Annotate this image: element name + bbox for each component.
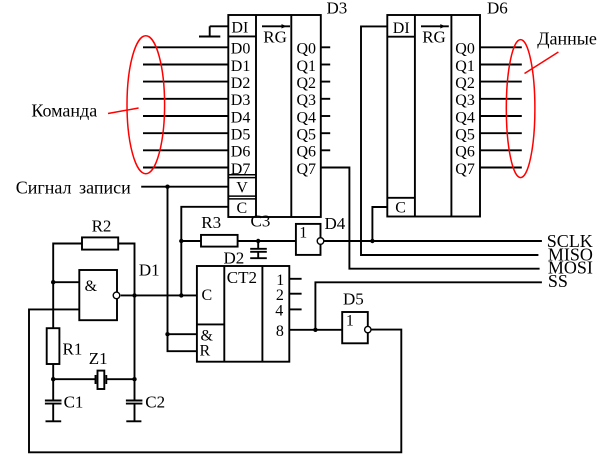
svg-text:Q5: Q5 — [455, 127, 475, 144]
svg-text:D7: D7 — [231, 161, 251, 178]
red ellipse data bus — [506, 40, 535, 178]
inverter D5 — [342, 312, 368, 343]
svg-text:D3: D3 — [231, 92, 251, 109]
wire D6 output Q7 — [480, 167, 522, 169]
wire D6 output Q3 — [480, 98, 522, 100]
wire D3 output Q3 stub — [321, 98, 330, 100]
svg-text:Сигнал записи: Сигнал записи — [16, 177, 131, 197]
svg-text:D3: D3 — [327, 0, 348, 18]
wire D6 output Q1 — [480, 64, 522, 66]
svg-text:D5: D5 — [231, 127, 251, 144]
svg-text:SS: SS — [548, 271, 568, 291]
red pointer line Данные — [525, 52, 559, 74]
wire D1 upper input — [53, 281, 79, 283]
svg-text:C: C — [202, 287, 213, 304]
svg-text:RG: RG — [263, 27, 287, 46]
svg-text:Q0: Q0 — [455, 41, 475, 58]
resistor R3 — [201, 235, 238, 247]
wire D3 input D1 — [143, 64, 228, 66]
wire D6 DI from MISO — [361, 26, 538, 255]
svg-text:Q3: Q3 — [455, 92, 475, 109]
wire SCLK rail from D4 — [324, 240, 542, 242]
resistor R1 — [47, 328, 60, 364]
svg-text:C2: C2 — [145, 393, 165, 412]
svg-text:V: V — [236, 179, 248, 196]
capacitor C3 to ground — [250, 241, 267, 258]
wire D3 output Q6 stub — [321, 149, 330, 151]
svg-text:D2: D2 — [224, 248, 245, 267]
svg-text:Команда: Команда — [31, 100, 97, 120]
junction D3 C / R3 rail — [179, 239, 183, 243]
wire D3 input D6 — [143, 149, 228, 151]
svg-text:D6: D6 — [231, 144, 251, 161]
svg-text:&: & — [85, 278, 98, 295]
wire D6 output Q4 — [480, 115, 522, 117]
D5 output bubble — [365, 326, 371, 332]
D1 output bubble — [113, 292, 120, 299]
svg-text:Q5: Q5 — [297, 127, 317, 144]
junction D3 C / CT2 C wire — [179, 293, 183, 297]
svg-text:Данные: Данные — [537, 28, 597, 48]
resistor R2 — [82, 237, 118, 249]
svg-text:2: 2 — [276, 287, 284, 304]
svg-text:C: C — [395, 199, 406, 216]
wire SS line from counter output 8 — [315, 282, 542, 330]
ground bar C2 — [126, 420, 141, 422]
wire D6 C from SCLK — [372, 207, 387, 241]
svg-text:8: 8 — [276, 323, 284, 340]
counter D2 body — [197, 266, 289, 362]
svg-text:D1: D1 — [139, 261, 160, 280]
capacitor C1 — [45, 401, 62, 422]
wire R2 left to R1 branch — [53, 244, 82, 329]
svg-text:D1: D1 — [231, 58, 251, 75]
wire Z1 right lead — [106, 378, 134, 380]
nand gate D1 body — [79, 270, 117, 320]
wire R2 right to D1 output branch — [118, 244, 134, 296]
svg-text:Q0: Q0 — [297, 41, 317, 58]
svg-text:Q4: Q4 — [297, 109, 317, 126]
wire R1 bottom to C1 — [52, 364, 54, 400]
svg-text:R3: R3 — [201, 213, 221, 232]
junction Z1 right — [132, 377, 136, 381]
wire Сигнал записи to D3 V — [141, 186, 228, 188]
D3 RG function label with arrow — [262, 24, 290, 46]
svg-text:Q4: Q4 — [455, 109, 475, 126]
junction SS tap on D5 input wire — [313, 328, 317, 332]
crystal Z1 — [96, 371, 107, 389]
wire D3 C to oscillator node — [181, 207, 228, 296]
svg-text:R1: R1 — [63, 339, 83, 358]
red ellipse command bus — [127, 36, 165, 174]
wire D6 output Q0 — [480, 46, 522, 48]
svg-text:1: 1 — [299, 224, 307, 241]
wire D3 input D2 — [143, 81, 228, 83]
junction R2/R1 node at D1 input — [51, 280, 55, 284]
svg-text:DI: DI — [393, 20, 410, 37]
svg-text:1: 1 — [346, 312, 354, 329]
wire D5 output feedback to D1 input — [29, 309, 401, 452]
junction D6 C on SCLK rail — [370, 239, 374, 243]
junction C3 tap — [256, 239, 260, 243]
svg-text:Q1: Q1 — [297, 58, 317, 75]
red pointer line Команда — [108, 108, 139, 114]
svg-text:Q1: Q1 — [455, 58, 475, 75]
junction Z1 left — [51, 377, 55, 381]
svg-text:C1: C1 — [64, 393, 84, 412]
wire D1 output branch down to Z1/C2 — [134, 295, 136, 400]
wire D3 output Q2 stub — [321, 81, 330, 83]
svg-text:D6: D6 — [487, 0, 508, 18]
svg-text:CT2: CT2 — [227, 268, 257, 287]
svg-text:C: C — [237, 200, 248, 217]
wire D3 output Q0 stub — [321, 46, 330, 48]
shift register D3 body — [228, 15, 320, 217]
svg-text:Q3: Q3 — [297, 92, 317, 109]
wire D3 Q7 to MOSI — [321, 168, 540, 269]
wire D3 input D3 — [143, 98, 228, 100]
wire D3 input D7 — [143, 167, 228, 169]
svg-text:Q6: Q6 — [455, 144, 475, 161]
capacitor C2 — [126, 401, 142, 422]
wire Z1 left lead — [53, 378, 95, 380]
wire R3 left — [181, 240, 201, 242]
wire D2 output 1 stub — [289, 278, 301, 280]
svg-text:D5: D5 — [343, 289, 364, 308]
wire R3 to D4 input — [238, 240, 296, 242]
wire D6 output Q2 — [480, 81, 522, 83]
svg-text:D2: D2 — [231, 75, 251, 92]
D4 output bubble — [317, 238, 324, 245]
svg-text:D4: D4 — [231, 109, 251, 126]
wire D1 output to D2 C input — [121, 294, 197, 296]
ground bar C1 — [46, 420, 62, 422]
svg-text:D4: D4 — [325, 214, 346, 233]
wire write-signal down to CT2 & and R inputs — [168, 187, 197, 352]
wire D3 output Q1 stub — [321, 64, 330, 66]
svg-text:4: 4 — [275, 303, 283, 320]
wire D3 output Q4 stub — [321, 115, 330, 117]
wire D3 input D5 — [143, 132, 228, 134]
wire D3 input D4 — [143, 115, 228, 117]
wire CT2 & input — [168, 333, 197, 335]
svg-text:Q6: Q6 — [297, 144, 317, 161]
svg-text:Q7: Q7 — [455, 161, 475, 178]
junction & branch — [165, 332, 169, 336]
svg-text:D0: D0 — [231, 41, 251, 58]
svg-text:Q7: Q7 — [297, 161, 317, 178]
wire D6 output Q5 — [480, 132, 522, 134]
svg-text:R: R — [200, 342, 211, 359]
svg-text:RG: RG — [422, 27, 446, 46]
D3 DI input stub (logic level mark) — [199, 26, 228, 36]
inverter D4 — [296, 224, 321, 255]
shift register D6 body — [387, 15, 480, 217]
svg-text:C3: C3 — [251, 211, 271, 230]
wire D2 output 2 stub — [289, 293, 301, 295]
svg-text:Q2: Q2 — [455, 75, 475, 92]
svg-text:Q2: Q2 — [297, 75, 317, 92]
wire D3 input D0 — [143, 46, 228, 48]
D6 RG function label with arrow — [421, 24, 449, 46]
wire D2 output 4 stub — [289, 308, 301, 310]
svg-text:R2: R2 — [92, 217, 112, 236]
wire D2 output 8 to D5 input — [289, 329, 342, 331]
junction D1 output / R2-C2 branch — [132, 293, 136, 297]
svg-text:Z1: Z1 — [89, 349, 108, 368]
junction write-signal / counter branch — [165, 185, 169, 189]
wire D6 output Q6 — [480, 149, 522, 151]
svg-text:DI: DI — [231, 20, 248, 37]
wire D3 output Q5 stub — [321, 132, 330, 134]
